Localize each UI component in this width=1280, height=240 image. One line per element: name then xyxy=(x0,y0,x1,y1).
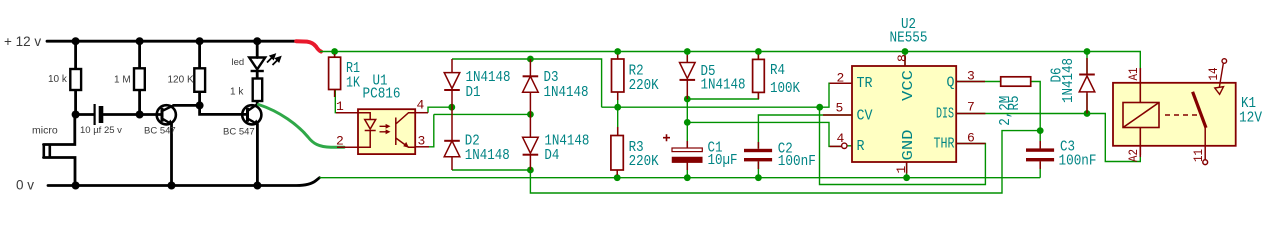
wire DIS line to relay A2 xyxy=(956,114,1140,162)
switch blade xyxy=(1193,92,1206,128)
wire cap to 1M node xyxy=(104,113,140,116)
svg-text:12V: 12V xyxy=(1239,110,1262,127)
svg-text:PC816: PC816 xyxy=(363,86,401,103)
capacitor C1 (polarized) xyxy=(663,134,702,162)
svg-text:1: 1 xyxy=(336,99,344,114)
svg-text:100nF: 100nF xyxy=(1059,153,1097,170)
resistor R4 xyxy=(753,59,765,92)
resistor R5 xyxy=(1001,77,1031,86)
svg-text:1K: 1K xyxy=(346,75,360,92)
wire trigger line xyxy=(602,83,852,107)
svg-text:0 v: 0 v xyxy=(16,178,34,193)
wire D5 bottom to R4 bottom xyxy=(687,92,758,99)
svg-text:10µF: 10µF xyxy=(708,152,738,169)
micro switch branch xyxy=(44,115,75,145)
wire U1 pin4 to diode node xyxy=(428,107,452,113)
wire 1M bottom xyxy=(138,90,141,115)
svg-text:2: 2 xyxy=(336,134,344,149)
svg-text:1 k: 1 k xyxy=(230,87,244,98)
svg-text:R5: R5 xyxy=(1006,96,1023,111)
svg-text:1 M: 1 M xyxy=(114,75,131,86)
resistor 10k xyxy=(70,69,81,90)
svg-text:10 µf 25 v: 10 µf 25 v xyxy=(80,125,122,136)
svg-text:1N4148: 1N4148 xyxy=(544,84,589,101)
svg-text:100nF: 100nF xyxy=(778,153,816,170)
svg-text:5: 5 xyxy=(836,101,844,116)
svg-text:220K: 220K xyxy=(629,77,659,94)
svg-text:TR: TR xyxy=(857,75,873,92)
wire CV line C2 top xyxy=(758,115,852,149)
svg-text:10 k: 10 k xyxy=(48,74,68,85)
wire node jog down to T2 base xyxy=(200,105,246,114)
svg-text:220K: 220K xyxy=(629,153,659,170)
wire 1k to T2 collector xyxy=(256,101,259,104)
svg-text:led: led xyxy=(232,57,245,68)
led xyxy=(249,58,265,72)
wire 10k bottom to node xyxy=(74,90,77,115)
diode D2 xyxy=(444,107,460,170)
capacitor C3 xyxy=(1026,148,1054,161)
dashed link xyxy=(1165,114,1198,116)
svg-text:D1: D1 xyxy=(466,84,481,101)
svg-text:1N4148: 1N4148 xyxy=(701,77,746,94)
wire 10k column top xyxy=(74,41,77,69)
optocoupler U1 PC816 xyxy=(336,73,425,155)
wire C1 line to 555 reset pin4 xyxy=(687,122,841,146)
resistor 1k xyxy=(253,79,263,102)
svg-text:4: 4 xyxy=(417,98,425,113)
resistor R1 xyxy=(329,57,341,89)
svg-text:CV: CV xyxy=(857,108,873,125)
svg-text:BC 547: BC 547 xyxy=(223,127,255,138)
wire R1 top stub xyxy=(334,52,336,58)
wire 555 vcc stub xyxy=(904,52,906,67)
svg-text:11: 11 xyxy=(1192,149,1206,162)
wire base T1 xyxy=(140,113,161,116)
wire T1 emitter down xyxy=(170,124,173,186)
wire 0V bottom rail xyxy=(48,178,320,186)
wire D5 top stub xyxy=(686,52,688,63)
pin 11 xyxy=(1203,128,1208,165)
svg-text:14: 14 xyxy=(1207,68,1221,81)
micro switch contacts xyxy=(44,145,50,158)
svg-text:Q: Q xyxy=(947,75,955,92)
wire D6 stubs xyxy=(1086,52,1088,114)
maroon component pin stubs xyxy=(335,54,1087,175)
wire LED column top xyxy=(256,41,259,57)
diode D5 xyxy=(680,63,696,100)
svg-text:8: 8 xyxy=(895,54,910,62)
junction dots kicad xyxy=(331,48,1090,181)
wire 120K column top xyxy=(198,41,201,68)
svg-text:1N4148: 1N4148 xyxy=(465,147,510,164)
wire C2 bottom stub xyxy=(757,162,759,178)
wire 1M column top xyxy=(138,41,141,68)
wire red +12 jumper to kicad xyxy=(296,41,321,51)
diode D1 xyxy=(444,59,460,107)
wire T1 collector to 120K node xyxy=(174,104,200,107)
wire D2/D4 bottom line xyxy=(452,170,530,178)
wire Q to R5 xyxy=(956,82,1040,131)
diode D6 xyxy=(1079,75,1095,114)
svg-text:R: R xyxy=(857,138,865,155)
resistor R3 xyxy=(611,136,623,171)
resistor 1M xyxy=(134,68,145,90)
transistor Q2 BC547 xyxy=(242,104,261,124)
svg-text:GND: GND xyxy=(900,130,917,161)
wire 120K bottom xyxy=(198,92,201,106)
wire diode line D1D2 to D3D4 xyxy=(434,113,531,115)
wire GND rail xyxy=(320,177,1041,179)
wire node to cap xyxy=(76,113,94,116)
timer U2 NE555 xyxy=(836,16,975,174)
wire bottom gnd detour y193 xyxy=(530,131,1040,193)
svg-text:NE555: NE555 xyxy=(890,30,928,47)
transistor Q1 BC547 xyxy=(157,105,176,124)
capacitor C2 xyxy=(744,149,772,162)
svg-text:7: 7 xyxy=(967,100,975,115)
svg-text:100K: 100K xyxy=(770,80,800,97)
svg-text:120 K: 120 K xyxy=(168,75,194,86)
pin 14 xyxy=(1215,59,1227,95)
svg-text:R4: R4 xyxy=(770,62,785,79)
svg-text:VCC: VCC xyxy=(900,70,917,101)
wire +12V top rail xyxy=(47,40,296,43)
wire R2-R3 node to R3 xyxy=(616,107,619,178)
svg-text:BC 547: BC 547 xyxy=(144,126,176,137)
wire LED to 1k xyxy=(256,72,259,79)
svg-text:THR: THR xyxy=(934,136,955,153)
wire +12V green top rail xyxy=(320,52,1140,83)
capacitor 10uF 25v xyxy=(95,104,101,125)
wire R2 stubs xyxy=(617,52,619,108)
diode D3 xyxy=(523,59,539,114)
svg-text:D4: D4 xyxy=(544,147,559,164)
svg-text:+ 12 v: + 12 v xyxy=(4,34,41,49)
wire C1 bottom stub xyxy=(686,163,688,178)
resistor 120K xyxy=(194,68,205,92)
pin A2 stub xyxy=(1139,146,1141,157)
svg-text:1N4148: 1N4148 xyxy=(1060,58,1077,103)
wire 555 gnd stub xyxy=(906,162,908,178)
junction dots black rail xyxy=(72,37,262,189)
resistor R2 xyxy=(612,59,624,92)
wire T2 emitter down xyxy=(256,124,259,186)
svg-text:A1: A1 xyxy=(1127,68,1141,81)
wire R1 bottom to U1 pin1 xyxy=(335,90,358,113)
relay K1 xyxy=(1113,59,1262,165)
diode D4 xyxy=(523,114,539,170)
wire timing node vertical C1 xyxy=(686,99,688,148)
wire green T2 collector to U1 pin2 xyxy=(259,105,345,148)
wire line2 D1 top to D3 top to trigger corner xyxy=(452,59,602,107)
coil xyxy=(1123,68,1159,155)
wire R5/C3 node down xyxy=(1039,131,1041,178)
wire U1 pin3 up to diode line xyxy=(429,114,434,146)
wire R4 top stub xyxy=(757,52,759,60)
svg-text:A2: A2 xyxy=(1127,149,1141,162)
wire THR loop xyxy=(820,107,986,184)
svg-text:micro: micro xyxy=(32,125,58,137)
svg-text:DIS: DIS xyxy=(936,106,954,123)
